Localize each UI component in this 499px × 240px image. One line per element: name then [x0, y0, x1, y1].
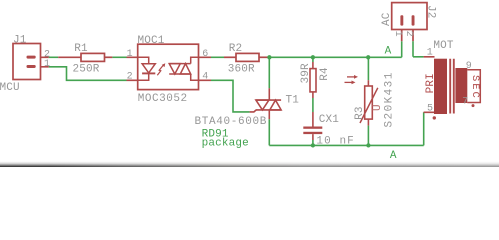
connector J2 [392, 3, 427, 42]
svg-text:R4: R4 [319, 67, 331, 81]
svg-text:4: 4 [202, 71, 208, 82]
svg-text:PRI: PRI [425, 73, 437, 93]
svg-text:MOC1: MOC1 [138, 35, 165, 47]
junction R3 bottom [366, 143, 370, 147]
resistor R4 [310, 62, 316, 98]
MOC1 internal LED [138, 57, 156, 80]
svg-text:7: 7 [462, 97, 468, 108]
resistor R2 [224, 53, 269, 61]
wire R1 to MOC pin1 [112, 56, 126, 58]
svg-text:R1: R1 [74, 43, 88, 55]
wire J1 pin1 to MOC pin2 [49, 67, 127, 81]
svg-text:2: 2 [403, 31, 414, 37]
optocoupler MOC1 [138, 44, 199, 89]
wire R3 to bottom [367, 126, 369, 146]
MOC1 emission arrow [157, 63, 165, 75]
MOT secondary pin loop [467, 70, 480, 103]
MOT polarity dot secondary [472, 104, 475, 107]
varistor R3 [360, 80, 378, 125]
wire MOC pin6 to R2 [211, 56, 224, 58]
junction at R2/T1 [267, 55, 271, 59]
svg-text:R3: R3 [354, 106, 366, 120]
MOC1 internal phototriac [169, 57, 198, 80]
MOT core lines [450, 59, 454, 114]
svg-text:6: 6 [202, 49, 208, 60]
triac T1 [250, 88, 282, 119]
transformer MOT secondary winding [455, 68, 467, 103]
capacitor CX1 [303, 112, 322, 140]
MOC1 pin stubs [127, 57, 212, 80]
svg-text:A: A [390, 150, 397, 162]
svg-text:R2: R2 [229, 43, 243, 55]
svg-text:5: 5 [427, 104, 433, 115]
junction CX1 bottom [311, 143, 315, 147]
junction at R3 branch [366, 55, 370, 59]
svg-text:A: A [385, 46, 392, 58]
svg-text:1: 1 [392, 31, 403, 37]
svg-text:BTA40-600B: BTA40-600B [195, 116, 267, 128]
svg-text:J2: J2 [424, 5, 436, 19]
junction at R4 branch [311, 55, 315, 59]
svg-text:T1: T1 [286, 94, 300, 106]
svg-text:10 nF: 10 nF [316, 135, 354, 147]
transformer MOT primary winding [434, 59, 447, 114]
svg-text:1: 1 [127, 49, 133, 60]
svg-text:U: U [372, 104, 384, 111]
svg-text:SEC: SEC [469, 75, 481, 98]
wire CX1 to bottom [312, 140, 314, 145]
svg-text:9: 9 [466, 61, 472, 72]
svg-text:CX1: CX1 [319, 114, 340, 126]
wire net A top run [269, 41, 401, 57]
resistor R1 [58, 53, 112, 61]
bottom photo edge band [0, 161, 499, 167]
svg-text:package: package [202, 138, 249, 150]
svg-text:S20K431: S20K431 [384, 72, 396, 127]
svg-text:AC: AC [381, 12, 393, 26]
svg-text:MCU: MCU [0, 82, 20, 94]
wire T1 top feed [268, 57, 270, 88]
transformer MOT pin stubs [424, 57, 435, 113]
svg-text:J1: J1 [13, 35, 27, 47]
svg-text:1: 1 [44, 59, 50, 70]
wire branch to R3 [367, 57, 369, 80]
svg-text:MOT: MOT [433, 40, 454, 52]
wire branch to R4 [312, 57, 314, 62]
svg-text:39R: 39R [300, 63, 312, 84]
MOT polarity dot primary [433, 116, 436, 119]
wire T1 bottom to net A bottom [269, 112, 423, 145]
wire MOC pin4 to T1 gate [211, 80, 250, 112]
svg-text:250R: 250R [73, 63, 100, 75]
connector J1 [13, 44, 49, 80]
varistor arrows [345, 75, 359, 84]
svg-text:2: 2 [127, 71, 133, 82]
svg-text:MOC3052: MOC3052 [138, 93, 188, 105]
svg-text:1: 1 [427, 48, 433, 59]
wire R4 to CX1 [312, 98, 314, 112]
svg-text:360R: 360R [228, 63, 255, 75]
wire J1 pin2 to R1 [49, 56, 58, 58]
wire J2 pin2 to MOT pin1 [413, 41, 424, 57]
